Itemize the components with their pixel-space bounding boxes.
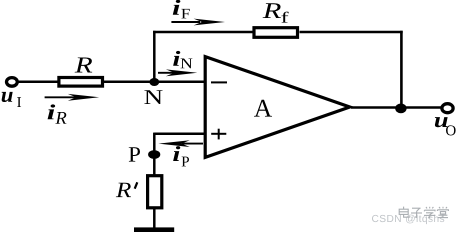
current arrow i_P [158, 140, 203, 147]
wire down to output node [400, 31, 403, 108]
label u_I [2, 92, 13, 102]
label i_P [173, 146, 180, 161]
label Rf [263, 3, 281, 18]
char 堂 [437, 207, 448, 218]
op-amp A [205, 57, 350, 158]
output node [395, 104, 406, 114]
wire input to resistor R [17, 80, 60, 83]
output wire [351, 106, 441, 109]
label R' [116, 183, 131, 197]
label i_F [173, 0, 181, 15]
label A [254, 100, 272, 117]
output terminal [442, 104, 453, 113]
wire feedback top left [153, 31, 253, 34]
current arrow i_R [45, 94, 100, 101]
watermark chinese 电子学堂 (drawn) [399, 207, 448, 218]
char 电 [399, 207, 409, 218]
label R [75, 57, 93, 72]
resistor R' [148, 176, 162, 208]
char 子 [411, 208, 422, 217]
prime of R' [135, 182, 138, 188]
node N [149, 78, 159, 86]
ground [134, 227, 174, 232]
wire N up to feedback [153, 31, 156, 82]
current arrow i_F [171, 19, 225, 26]
label u_O [435, 117, 448, 127]
wire feedback top right [300, 31, 403, 34]
wire down to P [153, 133, 156, 175]
current arrow i_N [158, 69, 197, 76]
label i_N [173, 51, 180, 66]
minus input sign [211, 81, 227, 83]
input terminal [6, 78, 17, 87]
watermark CSDN @ltqshs [372, 215, 444, 225]
label N [144, 90, 162, 104]
wire resistor R to op-amp minus input [104, 80, 205, 83]
char 学 [424, 207, 435, 218]
resistor R [59, 78, 103, 87]
label i_R [48, 104, 56, 119]
label P [129, 147, 140, 161]
plus input sign [211, 129, 226, 140]
wire plus input [154, 133, 204, 136]
node P [148, 150, 160, 159]
resistor Rf [254, 28, 298, 38]
wire R' to ground [153, 209, 156, 229]
